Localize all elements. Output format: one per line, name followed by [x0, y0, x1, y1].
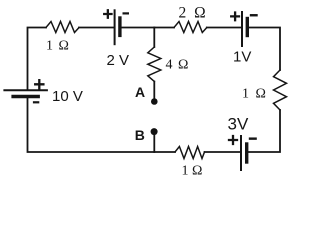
battery 1V plus sign [231, 13, 239, 21]
battery 3V negative plate [245, 144, 248, 162]
wire middle branch junction to resistor R5 [153, 28, 155, 48]
battery 2V negative plate [118, 18, 121, 35]
resistor R5 4ohm middle [148, 47, 161, 82]
battery 2V plus sign [104, 10, 111, 17]
wire battery 2V to node junction [122, 27, 155, 29]
resistor R2 2ohm top [174, 22, 207, 33]
battery 3V plus sign [229, 136, 237, 144]
wire battery 1V to top-right corner [249, 28, 280, 71]
svg-text:1 Ω: 1 Ω [242, 87, 267, 102]
battery 10V negative plate [13, 95, 38, 98]
wire R5 to node A [153, 82, 155, 99]
svg-text:1 Ω: 1 Ω [182, 164, 203, 179]
wire top-left corner to resistor R1 [28, 28, 47, 91]
wire R4 to bottom-left corner [28, 97, 176, 152]
wire junction to resistor R2 [154, 27, 174, 29]
battery 10V positive plate [4, 89, 47, 91]
battery 3V minus sign [250, 137, 256, 139]
svg-text:1 Ω: 1 Ω [46, 39, 70, 54]
svg-text:4 Ω: 4 Ω [166, 58, 190, 73]
svg-text:1V: 1V [233, 49, 251, 66]
wire node B to bottom wire [153, 135, 155, 152]
wire R3 to bottom-right corner [248, 110, 280, 152]
node B dot [151, 128, 158, 135]
battery 1V positive plate [241, 12, 243, 46]
battery 10V plus sign [35, 80, 43, 88]
battery 1V minus sign [251, 14, 257, 16]
svg-text:2 Ω: 2 Ω [179, 5, 208, 22]
svg-text:10 V: 10 V [52, 88, 83, 105]
resistor R4 1ohm bottom [175, 147, 205, 159]
svg-text:B: B [135, 127, 145, 143]
svg-text:A: A [135, 84, 145, 100]
node A dot [151, 98, 158, 105]
battery 2V minus sign [124, 12, 128, 14]
resistor R3 1ohm right [274, 70, 287, 110]
wire R2 to battery 1V [207, 27, 241, 29]
battery 1V negative plate [246, 19, 249, 36]
wire R1 to battery 2V [79, 27, 114, 29]
resistor R1 1ohm top-left [46, 22, 79, 33]
svg-text:3V: 3V [228, 115, 249, 134]
wire battery 3V to resistor R4 [205, 151, 241, 153]
battery 2V positive plate [114, 10, 116, 44]
svg-text:2 V: 2 V [107, 52, 130, 69]
battery 3V positive plate [240, 136, 242, 170]
battery 10V minus sign [34, 101, 38, 103]
